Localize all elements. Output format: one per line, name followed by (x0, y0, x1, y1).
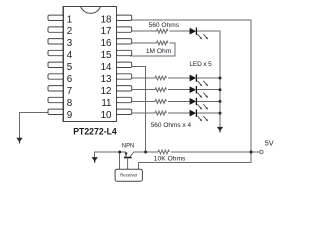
pin 8 lead (48, 97, 63, 102)
svg-text:13: 13 (101, 74, 112, 85)
wire R1 to LED D1 anode (170, 30, 190, 32)
resistor R7 10K Ohms (158, 150, 169, 154)
pin 16 lead (117, 39, 132, 44)
pin 10 lead (117, 109, 132, 114)
junction ground/receiver node (118, 151, 121, 154)
wire receiver antenna pin to VCC rail (138, 162, 251, 169)
LED D2 (190, 74, 208, 86)
ground LED rail (217, 127, 223, 133)
pin 6 lead (48, 74, 63, 79)
pin 7 lead (48, 86, 63, 91)
wire resistor to LED anode row pin11 (168, 100, 190, 102)
transistor Q1 base lead (127, 158, 129, 170)
LED D5 (190, 109, 208, 121)
junction VCC rail and 5V wire (250, 151, 253, 154)
ground pin9 (16, 138, 22, 144)
svg-text:7: 7 (67, 86, 72, 97)
pin 15 lead (117, 50, 132, 55)
junction LED rail row pin10 (219, 112, 222, 115)
svg-text:1M Ohm: 1M Ohm (146, 48, 172, 55)
svg-text:6: 6 (67, 74, 73, 85)
junction LED rail row pin13 (219, 77, 222, 80)
svg-text:16: 16 (101, 38, 112, 49)
receiver module box (115, 169, 142, 181)
wire pin10 to resistor (130, 112, 155, 114)
LED D3 (190, 86, 208, 98)
resistor R2 1M Ohm (157, 41, 168, 45)
wire R2 to pin15 loop (130, 43, 175, 56)
transistor Q1 NPN base bar (124, 157, 132, 159)
svg-text:Receiver: Receiver (120, 172, 138, 177)
svg-text:4: 4 (67, 50, 73, 61)
svg-text:560 Ohms: 560 Ohms (149, 22, 180, 29)
wire resistor to LED anode row pin10 (168, 112, 190, 114)
wire LED cathode to rail row pin10 (197, 112, 220, 114)
transistor Q1 emitter arrow (125, 153, 128, 157)
svg-text:5V: 5V (265, 138, 274, 147)
pin 2 lead (48, 27, 63, 32)
5V terminal circle (260, 150, 263, 153)
resistor R1 560 Ohms (157, 29, 168, 33)
resistor R3 560 Ohms (155, 76, 166, 80)
svg-text:10K Ohms: 10K Ohms (154, 155, 186, 162)
pin 1 lead (48, 15, 63, 20)
pin 9 lead (48, 109, 63, 114)
resistor R4 560 Ohms (155, 88, 166, 92)
wire ground node to receiver pin1 (119, 152, 121, 169)
wire resistor to LED anode row pin13 (168, 77, 190, 79)
svg-text:1: 1 (67, 14, 72, 25)
svg-text:NPN: NPN (122, 143, 134, 150)
wire emitter to ground arm (95, 152, 126, 157)
IC U1 PT2272-L4 body with notch (63, 7, 116, 122)
svg-text:5: 5 (67, 62, 73, 73)
svg-text:2: 2 (67, 26, 72, 37)
wire pin11 to resistor (130, 100, 155, 102)
svg-text:15: 15 (101, 50, 112, 61)
pin 12 lead (117, 86, 132, 91)
wire LED cathode to rail row pin12 (197, 89, 220, 91)
ground emitter arm (92, 157, 98, 163)
pin 18 lead (117, 15, 132, 20)
wire D1 cathode to LED ground rail (197, 31, 220, 127)
LED D1 (190, 28, 208, 40)
wire LED cathode to rail row pin13 (197, 77, 220, 79)
wire pin9 to ground (20, 113, 51, 138)
wire pin14 to transistor collector node (130, 66, 146, 152)
pin 17 lead (117, 27, 132, 32)
wire pin16 to R2 (130, 42, 157, 44)
pin 4 lead (48, 50, 63, 55)
svg-text:3: 3 (67, 38, 73, 49)
svg-text:17: 17 (101, 26, 112, 37)
svg-text:18: 18 (101, 14, 112, 25)
pin 5 lead (48, 62, 63, 67)
svg-text:560 Ohms x 4: 560 Ohms x 4 (151, 122, 192, 129)
wire Q1 collector to R7 (134, 151, 158, 153)
wire emitter drop Q1 (125, 152, 127, 157)
svg-text:12: 12 (101, 86, 112, 97)
resistor R6 560 Ohms (155, 111, 166, 115)
resistor R5 560 Ohms (155, 100, 166, 104)
wire resistor to LED anode row pin12 (168, 89, 190, 91)
wire LED cathode to rail row pin11 (197, 100, 220, 102)
pin 11 lead (117, 97, 132, 102)
svg-text:PT2272-L4: PT2272-L4 (73, 127, 117, 138)
svg-text:LED x 5: LED x 5 (189, 61, 212, 68)
wire R7 to 5V terminal (171, 151, 260, 153)
pin 13 lead (117, 74, 132, 79)
junction pin14/collector node (144, 151, 147, 154)
svg-text:10: 10 (101, 110, 112, 121)
wire pin12 to resistor (130, 89, 155, 91)
junction LED rail row pin11 (219, 100, 222, 103)
svg-text:8: 8 (67, 98, 73, 109)
svg-text:11: 11 (101, 98, 111, 109)
pin 14 lead (117, 62, 132, 67)
svg-text:9: 9 (67, 110, 72, 121)
junction LED rail row pin12 (219, 88, 222, 91)
wire pin18 to 5V/receiver rail (net VCC) (130, 20, 251, 162)
transistor Q1 collector lead (130, 152, 134, 157)
svg-text:14: 14 (101, 62, 112, 73)
LED D4 (190, 98, 208, 110)
pin 3 lead (48, 39, 63, 44)
wire pin13 to resistor (130, 77, 155, 79)
wire pin17 to R1 (130, 30, 157, 32)
